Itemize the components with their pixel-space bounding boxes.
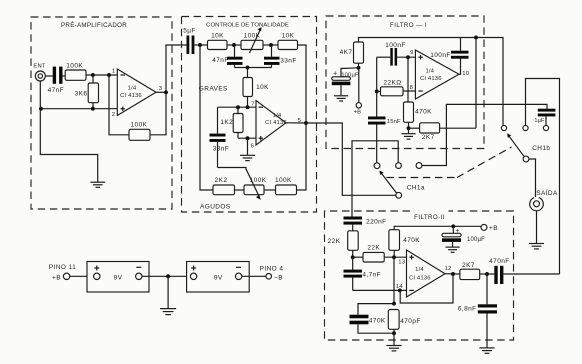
- svg-text:2K7: 2K7: [422, 134, 435, 141]
- svg-text:3K6: 3K6: [75, 90, 88, 97]
- svg-text:10K: 10K: [256, 84, 269, 91]
- switch contact CH1b-3: [543, 125, 548, 130]
- svg-text:1/4: 1/4: [128, 86, 137, 92]
- dashed block border FILTRO-II: [325, 211, 514, 340]
- wire centre tap to ground: [167, 276, 169, 308]
- op-amp U2 1/4 CI4136: [251, 101, 302, 150]
- wire 2K2 left to input node: [200, 45, 213, 190]
- node dot output pin 3: [164, 90, 168, 94]
- svg-text:10: 10: [462, 71, 469, 77]
- svg-text:AGUDOS: AGUDOS: [200, 204, 231, 211]
- svg-text:470nF: 470nF: [489, 258, 509, 265]
- svg-text:GRAVES: GRAVES: [199, 86, 228, 93]
- wire 10K to pot: [227, 44, 241, 46]
- wire output up to tone control: [166, 45, 187, 92]
- potentiometer 100K GRAVES: [241, 27, 263, 53]
- resistor 2K7 (filtro2 output): [460, 262, 494, 280]
- svg-text:CH1a: CH1a: [407, 184, 425, 191]
- capacitor 470K-labelled (filtro2 bias): [350, 315, 386, 333]
- switch contact CH1b-1: [501, 125, 506, 130]
- wire junction to 22K horizontal: [353, 256, 363, 258]
- svg-text:100nF: 100nF: [385, 42, 405, 49]
- svg-text:CONTROLE DE TONALIDADE: CONTROLE DE TONALIDADE: [206, 23, 289, 29]
- wire RC bottom branch: [358, 332, 394, 334]
- switch contact CH1a-3: [416, 163, 422, 169]
- capacitor 470nF (output): [489, 258, 509, 284]
- svg-text:2K7: 2K7: [462, 262, 475, 269]
- capacitor 47nF (input): [48, 67, 64, 95]
- node dot ENT ground branch: [39, 107, 43, 111]
- switch contact CH1b-2: [523, 125, 528, 130]
- terminal +B (filtro1): [354, 68, 362, 116]
- capacitor 100nF (filtro1 output): [430, 38, 468, 60]
- wire CH1b-2 to output bus: [526, 79, 560, 275]
- wire pin 2 line: [40, 108, 117, 110]
- wire op-amp2 output: [286, 122, 306, 124]
- ground (battery centre): [160, 309, 176, 315]
- capacitor 15nF: [368, 117, 401, 163]
- node dot pin 6 ground branch: [246, 136, 250, 140]
- capacitor 100nF (filtro1 input): [385, 42, 405, 66]
- wire cap to R 100K: [63, 75, 66, 77]
- svg-text:CI 4136: CI 4136: [120, 93, 142, 99]
- ground (6,8nF): [479, 348, 494, 353]
- wire feedback to pin1 node: [109, 75, 129, 135]
- wire treble wiper: [218, 168, 247, 171]
- terminal -B PINO 4: [260, 265, 284, 281]
- wire filtro1 top feedback rail: [359, 38, 504, 126]
- node dot 22K junction: [351, 255, 355, 259]
- battery B1 9V: [87, 262, 193, 293]
- resistor 22K (vertical, filtro2): [328, 231, 359, 257]
- svg-text:CI 4136: CI 4136: [420, 76, 442, 82]
- wire 5uF to input node: [194, 44, 207, 46]
- svg-text:9: 9: [410, 50, 413, 56]
- resistor 4K7: [340, 42, 364, 68]
- dashed block border FILTRO-I: [326, 16, 484, 149]
- wire ENT to C 47nF: [45, 75, 52, 77]
- resistor 3K6: [75, 75, 99, 109]
- switch contact CH1a-2: [396, 163, 402, 169]
- svg-text:22K: 22K: [367, 244, 380, 251]
- svg-text:8: 8: [410, 85, 414, 91]
- node dot 4K7 bottom: [357, 66, 361, 70]
- wire CH1b arm to SAIDA: [529, 159, 536, 197]
- svg-text:470K: 470K: [403, 237, 420, 244]
- resistor 22K (horizontal, filtro2): [363, 244, 407, 262]
- wire pin 12 output: [445, 273, 460, 275]
- ground (pre-amp): [90, 182, 105, 187]
- wire coupling dashed ganged switch: [387, 147, 512, 178]
- svg-text:4K7: 4K7: [340, 49, 353, 56]
- svg-text:1/4: 1/4: [415, 267, 424, 273]
- wire top rail down to 2K7: [475, 38, 477, 129]
- svg-text:33nF: 33nF: [280, 57, 296, 64]
- svg-text:100K: 100K: [66, 63, 83, 70]
- svg-text:22K: 22K: [328, 238, 341, 245]
- op-amp U3 1/4 CI4136: [410, 50, 470, 99]
- wire CH1a-3 to bypass bus: [422, 104, 547, 165]
- node dot pin 5: [304, 121, 308, 125]
- node dot pin 13 / 470K bottom: [392, 255, 396, 259]
- node dot 3K6 bottom: [91, 107, 95, 111]
- switch contact CH1a-1: [374, 163, 380, 169]
- wire RC top branch: [358, 304, 394, 315]
- capacitor 47nF (bass): [212, 45, 242, 68]
- svg-text:33nF: 33nF: [213, 146, 229, 153]
- node dot top rail: [474, 36, 478, 40]
- resistor 1K2: [220, 107, 243, 138]
- svg-text:+B: +B: [489, 225, 498, 232]
- input jack ENT: [33, 63, 45, 81]
- wire pin 14 line: [353, 289, 407, 291]
- svg-text:10K: 10K: [282, 33, 295, 40]
- svg-text:22KΩ: 22KΩ: [383, 80, 401, 87]
- svg-text:6,8nF: 6,8nF: [458, 305, 477, 312]
- wire CH1a-2 bridge to filtro2 input: [352, 141, 398, 217]
- svg-text:6: 6: [251, 144, 255, 150]
- svg-text:100K: 100K: [131, 121, 148, 128]
- svg-text:47nF: 47nF: [48, 87, 64, 94]
- node dot 100uF top: [451, 224, 455, 228]
- wire 2K7 output row: [409, 127, 420, 129]
- svg-text:1: 1: [112, 69, 115, 75]
- dashed block border CONTROLE DE TONALIDADE: [182, 17, 317, 213]
- wire pin 6 line: [238, 137, 256, 139]
- svg-text:100nF: 100nF: [430, 52, 450, 59]
- wire 470K top to +B rail: [394, 226, 481, 229]
- ground (100uF filtro1): [334, 96, 348, 101]
- svg-text:1/4: 1/4: [425, 69, 434, 75]
- resistor 22KOhm: [377, 80, 416, 96]
- output jack SAIDA: [530, 188, 558, 243]
- resistor 2K2: [213, 177, 235, 195]
- svg-text:−B: −B: [274, 274, 283, 281]
- resistor 470K (filtro1): [404, 102, 433, 128]
- node dot pin 12: [451, 272, 455, 276]
- node dot 6,8nF top: [485, 272, 489, 276]
- resistor 100K (feedback): [129, 121, 150, 140]
- svg-text:15nF: 15nF: [387, 119, 401, 125]
- wire pin9 node down to 470K: [407, 57, 409, 102]
- terminal +B PINO 11: [49, 264, 94, 281]
- svg-text:12: 12: [445, 266, 452, 272]
- node dot tone input: [198, 43, 202, 47]
- wire output down to feedback: [150, 92, 166, 135]
- node dot pin 14: [398, 288, 402, 292]
- svg-text:47nF: 47nF: [212, 57, 228, 64]
- capacitor 4,7nF: [344, 257, 382, 290]
- svg-text:CH1b: CH1b: [532, 145, 550, 152]
- node dot pin 9: [406, 55, 410, 59]
- svg-text:1K2: 1K2: [220, 119, 233, 126]
- wire feedback pin12 to pin14: [400, 274, 453, 303]
- wire 100nF to pin 9: [397, 56, 415, 58]
- svg-text:CI 4136: CI 4136: [409, 276, 431, 282]
- ground (filtro2 bias): [386, 346, 401, 351]
- wire 2K2 to pot: [235, 189, 245, 191]
- svg-text:470K: 470K: [369, 318, 386, 325]
- resistor 2K7 (filtro1): [420, 123, 476, 141]
- ground (100uF filtro2): [446, 247, 460, 252]
- wire pin6 to ground: [247, 138, 249, 155]
- capacitor 5uF: [183, 28, 196, 54]
- svg-text:1µF: 1µF: [534, 118, 545, 124]
- op-amp U4 1/4 CI4136: [396, 250, 452, 297]
- svg-text:CI 4136: CI 4136: [265, 120, 287, 126]
- battery B2 9V: [187, 262, 266, 293]
- svg-text:PINO 4: PINO 4: [260, 265, 284, 272]
- wire 100K right to output bus: [297, 123, 307, 190]
- wire bus top to 100nF: [377, 56, 391, 58]
- node dot 47nF top: [232, 43, 236, 47]
- node dot 10K bottom pin7: [246, 105, 250, 109]
- svg-text:5µF: 5µF: [183, 28, 196, 35]
- wire pin13 node down to RC: [393, 257, 395, 303]
- wire +B node to 100uF: [341, 68, 359, 77]
- wire 10K right to output bus: [298, 45, 307, 123]
- svg-text:9V: 9V: [114, 274, 123, 281]
- node dot at pin1/feedback: [107, 73, 111, 77]
- svg-text:FILTRO — I: FILTRO — I: [390, 22, 427, 29]
- switch arm CH1a: [379, 171, 425, 199]
- wire bass wiper join: [235, 67, 272, 69]
- svg-text:FILTRO-II: FILTRO-II: [414, 214, 445, 221]
- wire pin5 to CH1a arm: [306, 123, 396, 195]
- svg-text:14: 14: [396, 284, 403, 290]
- wire input bus filtro1: [376, 57, 378, 116]
- node dot 470K bottom: [407, 126, 411, 130]
- capacitor 33nF (treble left): [210, 107, 230, 167]
- wire ENT shield down to ground run: [40, 81, 97, 182]
- node dot RC bottom: [392, 331, 396, 335]
- terminal +B (filtro2): [481, 224, 498, 232]
- capacitor 100uF (electrolytic, filtro2): [442, 226, 485, 246]
- dashed block border PRE-AMPLIFICADOR: [31, 17, 172, 209]
- wire pot to 100K: [264, 189, 276, 191]
- svg-text:100µF: 100µF: [341, 72, 359, 78]
- capacitor 6,8nF: [458, 274, 497, 347]
- svg-text:+B: +B: [354, 110, 362, 116]
- svg-text:9V: 9V: [214, 274, 223, 281]
- svg-text:PRÉ-AMPLIFICADOR: PRÉ-AMPLIFICADOR: [61, 22, 127, 29]
- capacitor 100uF (electrolytic, filtro1): [332, 71, 359, 96]
- capacitor 33nF (bass): [264, 45, 297, 68]
- capacitor 1uF: [534, 109, 555, 126]
- node dot battery centre tap: [166, 274, 170, 278]
- resistor 10K (to pin 7): [243, 68, 269, 108]
- ground (470K filtro1): [401, 128, 415, 139]
- capacitor 220nF: [344, 217, 387, 231]
- wire pot to 10K right: [263, 44, 278, 46]
- svg-text:2K2: 2K2: [215, 177, 228, 184]
- wire pin 7 line: [218, 106, 257, 108]
- svg-text:13: 13: [398, 259, 405, 265]
- wire 470nF output to bus corner: [503, 273, 559, 275]
- svg-text:470K: 470K: [415, 109, 432, 116]
- svg-text:10K: 10K: [211, 33, 224, 40]
- resistor 470K (vertical, filtro2): [389, 230, 420, 258]
- svg-text:1/4: 1/4: [273, 113, 282, 119]
- op-amp U1 1/4 CI4136: [112, 69, 163, 118]
- wire 100K to op-amp pin 1: [86, 74, 117, 76]
- node dot 33nF top: [269, 43, 273, 47]
- svg-text:7: 7: [251, 102, 254, 108]
- wire RC bottom to ground: [393, 333, 395, 345]
- svg-text:+B: +B: [52, 274, 61, 281]
- node dot 22K left: [375, 89, 379, 93]
- ground (SAIDA): [529, 244, 544, 249]
- resistor 100K (series input): [65, 63, 86, 81]
- switch arm CH1b: [507, 133, 550, 162]
- svg-text:220nF: 220nF: [366, 218, 386, 225]
- wire pin10 output up: [459, 56, 461, 74]
- svg-text:470pF: 470pF: [400, 318, 420, 325]
- wire op-amp output pin 3 node: [156, 91, 166, 93]
- svg-text:PINO 11: PINO 11: [49, 264, 76, 271]
- svg-text:2: 2: [112, 112, 115, 118]
- resistor 470pF-labelled (filtro2 bias): [388, 310, 420, 334]
- svg-text:100µF: 100µF: [467, 237, 485, 243]
- node dot 1K2 top: [236, 105, 240, 109]
- potentiometer 100K AGUDOS: [244, 169, 267, 200]
- resistor 100K (treble right): [275, 177, 296, 195]
- node dot at 3K6 top: [91, 73, 95, 77]
- svg-text:100K: 100K: [275, 177, 292, 184]
- node dot RC top: [392, 302, 396, 306]
- ground (tone control): [240, 155, 255, 160]
- svg-text:SAÍDA: SAÍDA: [536, 188, 558, 197]
- svg-text:4,7nF: 4,7nF: [362, 272, 381, 279]
- svg-text:3: 3: [159, 86, 163, 92]
- resistor 10K (bass top left): [208, 33, 228, 50]
- node dot bass wiper: [246, 66, 250, 70]
- svg-text:ENT: ENT: [33, 63, 45, 69]
- resistor 10K (bass top right): [278, 33, 298, 50]
